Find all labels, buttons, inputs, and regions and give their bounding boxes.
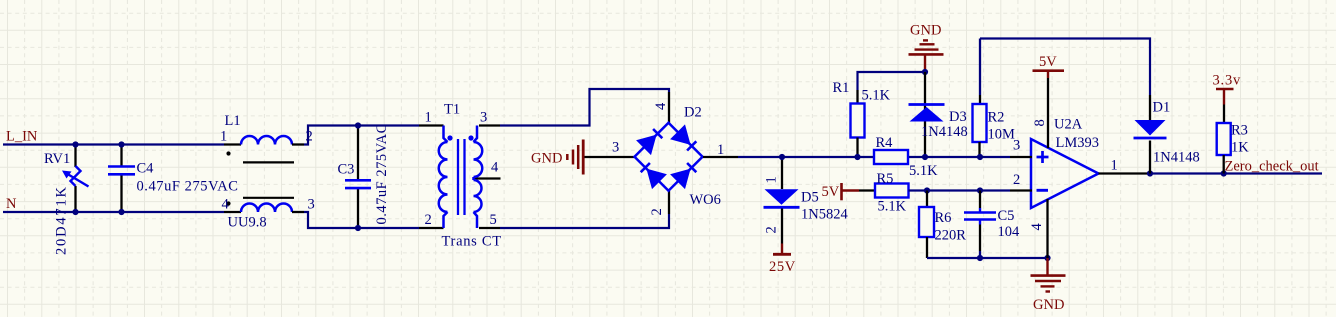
svg-text:1: 1	[1111, 158, 1118, 174]
svg-text:T1: T1	[444, 102, 460, 118]
svg-text:3: 3	[480, 110, 487, 126]
svg-text:2: 2	[306, 129, 313, 145]
svg-text:Trans CT: Trans CT	[442, 234, 502, 250]
svg-text:1N4148: 1N4148	[921, 124, 968, 140]
svg-text:3: 3	[612, 140, 619, 156]
svg-text:4: 4	[653, 102, 669, 110]
svg-text:N: N	[6, 196, 17, 212]
svg-text:4: 4	[222, 197, 230, 213]
svg-text:1K: 1K	[1231, 140, 1249, 156]
svg-text:104: 104	[998, 224, 1021, 240]
svg-text:5: 5	[490, 212, 497, 228]
svg-text:L_IN: L_IN	[6, 129, 38, 145]
svg-text:C3: C3	[338, 162, 355, 178]
svg-text:Zero_check_out: Zero_check_out	[1225, 159, 1319, 175]
svg-text:2: 2	[764, 226, 780, 233]
svg-text:5.1K: 5.1K	[878, 199, 907, 215]
svg-text:3: 3	[1013, 138, 1020, 154]
svg-text:R5: R5	[877, 171, 894, 187]
svg-text:WO6: WO6	[690, 192, 721, 208]
svg-text:RV1: RV1	[44, 151, 70, 167]
svg-text:R3: R3	[1231, 123, 1248, 139]
svg-text:4: 4	[1029, 223, 1045, 231]
svg-text:R2: R2	[988, 109, 1005, 125]
svg-text:L1: L1	[225, 113, 241, 129]
svg-text:4: 4	[491, 160, 499, 176]
svg-text:3.3v: 3.3v	[1213, 73, 1242, 89]
svg-text:GND: GND	[910, 23, 941, 39]
svg-text:5.1K: 5.1K	[909, 163, 938, 179]
svg-text:U2A: U2A	[1054, 117, 1083, 133]
svg-text:R4: R4	[876, 135, 894, 151]
svg-text:220R: 220R	[935, 228, 967, 244]
svg-text:2: 2	[425, 212, 432, 228]
svg-text:C4: C4	[137, 161, 155, 177]
svg-text:5.1K: 5.1K	[862, 88, 891, 104]
svg-text:UU9.8: UU9.8	[228, 215, 267, 231]
svg-text:0.47uF 275VAC: 0.47uF 275VAC	[137, 179, 239, 195]
svg-text:2: 2	[1013, 172, 1020, 188]
svg-text:5V: 5V	[1039, 54, 1057, 70]
svg-text:GND: GND	[531, 151, 562, 167]
svg-text:R1: R1	[833, 80, 850, 96]
svg-text:1: 1	[425, 110, 432, 126]
svg-text:1: 1	[764, 176, 780, 183]
svg-text:8: 8	[1032, 119, 1048, 126]
svg-text:R6: R6	[935, 210, 952, 226]
svg-text:10M: 10M	[988, 127, 1016, 143]
svg-text:20D471K: 20D471K	[54, 185, 70, 255]
svg-text:GND: GND	[1033, 297, 1064, 313]
svg-text:1N4148: 1N4148	[1153, 150, 1200, 166]
svg-text:D5: D5	[801, 190, 819, 206]
svg-text:1: 1	[220, 129, 227, 145]
svg-text:D3: D3	[949, 109, 967, 125]
svg-text:5V: 5V	[822, 184, 840, 200]
svg-text:25V: 25V	[769, 259, 796, 275]
svg-text:D2: D2	[684, 105, 702, 121]
svg-text:1: 1	[717, 142, 724, 158]
svg-text:LM393: LM393	[1056, 135, 1100, 151]
svg-text:2: 2	[649, 208, 665, 215]
svg-text:3: 3	[308, 197, 315, 213]
svg-text:1N5824: 1N5824	[801, 207, 848, 223]
svg-text:0.47uF 275VAC: 0.47uF 275VAC	[374, 123, 390, 224]
svg-text:D1: D1	[1153, 100, 1171, 116]
svg-text:C5: C5	[998, 208, 1015, 224]
